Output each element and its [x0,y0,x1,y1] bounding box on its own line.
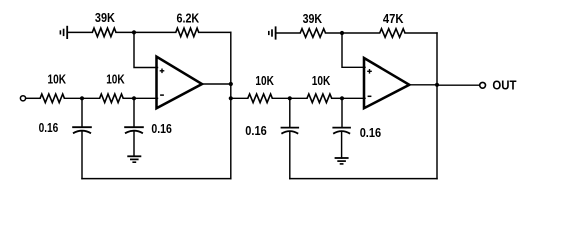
label R7 value 39K [303,11,323,26]
wire R1 to node A [64,97,82,99]
label R2 value 10K [106,71,125,86]
svg-text:47K: 47K [383,11,404,26]
wire C4 to ground [341,131,343,158]
resistor R8 [380,29,405,38]
wire node B down to C2 [133,98,135,127]
wire T1 down to U1 noninverting input [134,32,158,67]
capacitor C3 [281,128,300,134]
label OUT [492,77,516,92]
svg-text:0.16: 0.16 [245,123,266,138]
svg-text:6.2K: 6.2K [177,10,200,25]
wire node A down to C1 [81,98,83,127]
wire R3 to node T1 [116,31,134,33]
svg-text:OUT: OUT [492,77,516,92]
wire node C down to C3 [289,98,291,127]
svg-text:10K: 10K [255,73,274,88]
node T2 junction [340,31,344,35]
wire output junction to OUT terminal [437,84,480,86]
wire node D down to C4 [341,98,343,127]
label R3 value 39K [95,10,115,25]
wire ground to R7 [276,32,300,34]
label R1 value 10K [48,71,67,86]
resistor R6 [307,94,332,103]
wire T1 to R4 [134,31,176,33]
svg-text:39K: 39K [95,10,115,25]
input terminal [20,96,25,101]
node C junction [288,96,292,100]
wire U1 output to output junction [202,83,231,85]
wire R5 to node C [272,97,290,99]
node D junction [340,96,344,100]
wire C1 down to bottom feedback wire [81,131,83,179]
wire R6 to node D [332,97,342,99]
wire C3 down to bottom feedback wire [289,131,291,178]
junction column to main row [229,96,233,100]
svg-text:0.16: 0.16 [360,125,381,140]
feedback column stage 2 [436,33,438,179]
bottom feedback wire stage 2 [290,178,437,180]
output junction stage 1 [229,82,233,86]
wire input terminal to R1 [26,97,40,99]
wire node D to U2 inverting input [342,97,365,99]
svg-text:10K: 10K [312,73,331,88]
ground under C4 [335,158,349,164]
svg-text:10K: 10K [106,71,125,86]
wire node A to R2 [82,97,100,99]
svg-text:39K: 39K [303,11,323,26]
wire ground to R3 [68,31,92,33]
resistor R3 [92,28,116,37]
resistor R4 [176,28,199,37]
label C4 value 0.16 [360,125,381,140]
svg-text:10K: 10K [48,71,67,86]
label R4 value 6.2K [177,10,200,25]
node T1 junction [132,30,136,34]
label C1 value 0.16 [39,120,59,135]
wire T2 to R8 [342,32,380,34]
wire node B to U1 inverting input [134,97,158,99]
resistor R5 [248,94,272,103]
wire R2 to node B [123,97,134,99]
node B junction [132,96,136,100]
feedback column stage 1 [230,32,232,178]
capacitor C4 [332,128,351,134]
ground under C2 [127,156,141,162]
svg-text:0.16: 0.16 [39,120,59,135]
ground at left of R7 (rotated) [269,26,276,39]
wire R7 to node T2 [326,32,343,34]
label R5 value 10K [255,73,274,88]
bottom feedback wire stage 1 [82,178,231,180]
label R6 value 10K [312,73,331,88]
wire U2 output to output junction [409,84,437,86]
output junction stage 2 [435,83,439,87]
wire R8 to feedback column [405,32,437,34]
wire column to R5 [231,97,248,99]
label R8 value 47K [383,11,404,26]
resistor R7 [300,29,325,38]
OUT terminal [480,82,486,88]
resistor R2 [100,94,124,103]
wire R4 to feedback column [199,31,231,33]
op-amp U2 [364,58,409,108]
resistor R1 [40,94,64,103]
wire C2 to ground [133,131,135,157]
label C2 value 0.16 [151,121,172,136]
op-amp U1 [157,57,203,109]
capacitor C2 [124,127,144,133]
ground at left of R3 (rotated) [60,26,67,39]
node A junction [80,96,84,100]
label C3 value 0.16 [245,123,266,138]
wire T2 down to U2 noninverting input [342,33,365,67]
capacitor C1 [72,127,92,133]
svg-text:0.16: 0.16 [151,121,172,136]
wire node C to R6 [290,97,307,99]
